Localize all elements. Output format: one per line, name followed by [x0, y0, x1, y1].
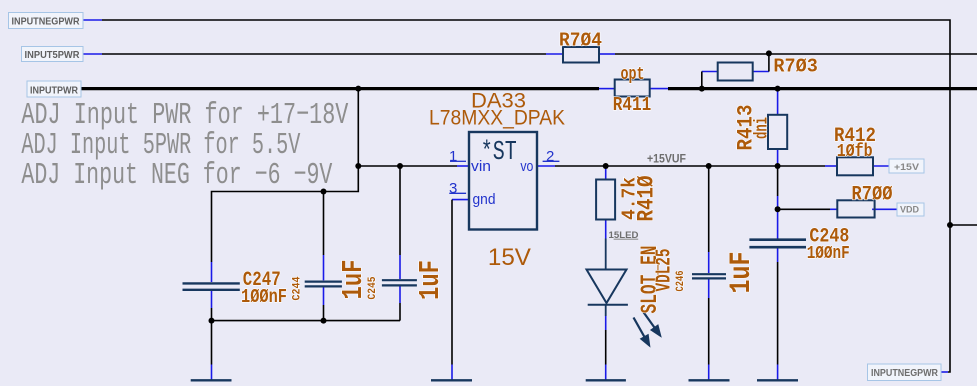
svg-text:1: 1 — [449, 148, 457, 165]
capacitor C248 — [749, 240, 806, 248]
svg-text:C246: C246 — [675, 271, 687, 292]
svg-text:gnd: gnd — [473, 191, 496, 208]
wire INPUT5PWR rail — [83, 53, 977, 55]
wire VDD rail — [778, 208, 897, 210]
wire C246 branch down to ground — [708, 166, 710, 380]
capacitor C244 — [305, 282, 342, 287]
svg-text:VDL25: VDL25 — [654, 249, 677, 292]
resistor R412 — [837, 157, 873, 175]
svg-text:vin: vin — [471, 158, 491, 175]
svg-text:1uF: 1uF — [414, 260, 447, 300]
svg-text:+15V: +15V — [894, 162, 920, 173]
junction at C247 bottom rail — [209, 318, 215, 324]
resistor R704 — [563, 47, 599, 63]
junction at R410 top on +15VUF — [603, 163, 609, 169]
capacitor C247 — [183, 283, 240, 289]
wire C245 top lead — [399, 166, 401, 279]
wire INPUTPWR thick rail — [81, 87, 977, 90]
junction on right INPUTNEGPWR drop — [947, 222, 953, 228]
junction at C248 top / VDD branch — [775, 206, 781, 212]
capacitor C246 — [692, 274, 726, 278]
svg-text:1uF: 1uF — [724, 252, 758, 294]
net label VDD — [897, 203, 924, 216]
ground (C246) — [689, 379, 730, 381]
junction at C244 top — [321, 189, 327, 195]
wire bottom capacitor rail — [212, 287, 401, 381]
ground (C248) — [757, 379, 798, 381]
net alias 15LED — [609, 230, 639, 241]
svg-text:INPUTPWR: INPUTPWR — [30, 86, 79, 97]
resistor R410 — [596, 180, 615, 220]
svg-text:R7ØØ: R7ØØ — [852, 184, 893, 207]
pin 2 underline — [543, 160, 560, 162]
resistor R411 — [615, 80, 650, 97]
wire R413 branch / C248 branch to ground — [777, 89, 779, 380]
svg-text:15V: 15V — [488, 244, 531, 271]
svg-text:C244: C244 — [292, 276, 304, 300]
net label INPUTPWR — [27, 81, 81, 97]
ground (LED) — [586, 379, 626, 381]
svg-text:dni: dni — [753, 117, 773, 139]
svg-text:1Øfb: 1Øfb — [837, 142, 873, 162]
junction at R413 bottom on +15VUF — [775, 163, 781, 169]
junction at C246 top on +15VUF — [706, 163, 712, 169]
wire vin node to regulator — [358, 165, 469, 167]
junction node vin branch — [355, 163, 361, 169]
svg-text:C245: C245 — [367, 276, 379, 299]
pin 1 underline — [450, 160, 466, 162]
junction at C245 top — [397, 163, 403, 169]
pin 3 underline — [449, 192, 466, 194]
svg-text:vo: vo — [520, 158, 533, 175]
net label INPUTNEGPWR (top left) — [9, 13, 84, 29]
svg-text:3: 3 — [449, 180, 457, 197]
wire C244 top lead — [323, 192, 325, 281]
svg-text:INPUTNEGPWR: INPUTNEGPWR — [12, 17, 81, 28]
svg-text:VDD: VDD — [900, 205, 919, 216]
resistor R703 — [718, 63, 753, 81]
svg-text:R7Ø4: R7Ø4 — [559, 30, 602, 52]
net label +15V — [889, 159, 924, 173]
svg-text:L78MXX_DPAK: L78MXX_DPAK — [429, 107, 565, 130]
wire vo output +15VUF rail — [537, 165, 889, 167]
resistor R413 — [768, 115, 787, 149]
svg-text:1ØØnF: 1ØØnF — [241, 286, 287, 308]
svg-text:R7Ø3: R7Ø3 — [773, 56, 818, 78]
net label INPUTNEGPWR (bottom right) — [868, 364, 942, 381]
svg-text:INPUT5PWR: INPUT5PWR — [25, 50, 81, 61]
wire gnd pin down to ground — [452, 200, 469, 380]
net label INPUT5PWR — [22, 47, 84, 62]
junction on INPUTPWR at R703 left lead — [699, 86, 705, 92]
svg-text:INPUTNEGPWR: INPUTNEGPWR — [871, 368, 939, 379]
svg-text:opt: opt — [621, 65, 645, 85]
capacitor C245 — [382, 280, 417, 285]
wire right-side branch at x=950 — [950, 224, 977, 226]
junction on INPUTPWR at R413 branch — [775, 86, 781, 92]
svg-text:+15VUF: +15VUF — [647, 152, 686, 166]
wire vertical from INPUTPWR down to vin node and caps rail — [212, 89, 359, 282]
svg-text:R41Ø: R41Ø — [634, 175, 660, 221]
junction on INPUTPWR at vin branch — [355, 86, 361, 92]
LED VDL25 — [587, 270, 628, 305]
svg-text:ADJ Input NEG for −6 −9V: ADJ Input NEG for −6 −9V — [21, 158, 332, 193]
resistor R700 — [837, 200, 874, 217]
ground (regulator gnd) — [431, 379, 472, 381]
regulator U DA33 L78MXX_DPAK — [469, 132, 537, 230]
annotation text ADJ lines — [21, 98, 348, 193]
svg-text:2: 2 — [546, 148, 554, 165]
wire R410 branch down through LED to ground — [605, 166, 607, 380]
junction on INPUT5PWR at R703 right lead — [766, 50, 772, 56]
junction at C244 bottom rail — [321, 318, 327, 324]
wire R703 leads — [702, 53, 769, 88]
svg-text:1ØØnF: 1ØØnF — [807, 244, 850, 264]
ground (C247 rail) — [191, 379, 232, 381]
svg-text:1uF: 1uF — [337, 260, 370, 300]
LED arrows — [634, 312, 661, 346]
svg-text:R411: R411 — [613, 94, 652, 116]
